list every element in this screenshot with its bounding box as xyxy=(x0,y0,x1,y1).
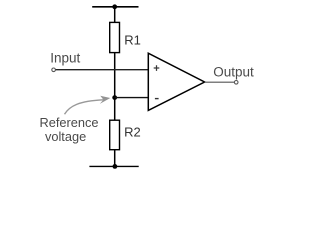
svg-text:Input: Input xyxy=(50,51,80,66)
annotation arrow to reference node xyxy=(65,100,104,114)
junction bottom node xyxy=(113,164,118,169)
output terminal xyxy=(234,81,238,85)
pin - (inverting) xyxy=(155,98,159,100)
input terminal xyxy=(52,68,56,72)
wire R2 to bottom rail xyxy=(114,150,116,167)
junction top node xyxy=(112,4,117,9)
pin + (non-inverting) xyxy=(154,65,160,71)
node reference voltage (junction dot) xyxy=(112,95,117,100)
top supply rail xyxy=(92,6,138,8)
svg-text:R1: R1 xyxy=(124,33,141,48)
svg-text:voltage: voltage xyxy=(45,129,86,144)
resistor R1 xyxy=(110,22,120,52)
op-amp U1 xyxy=(148,53,204,110)
wire op-amp output xyxy=(205,81,235,83)
bottom supply rail xyxy=(89,165,138,167)
svg-text:R2: R2 xyxy=(124,125,141,140)
wire input to op-amp + xyxy=(56,69,149,71)
wire R1 to R2 (divider chain) xyxy=(114,53,116,121)
svg-text:Output: Output xyxy=(213,64,254,79)
svg-text:Reference: Reference xyxy=(39,115,98,130)
resistor R2 xyxy=(110,120,120,150)
wire node to op-amp - xyxy=(115,97,149,99)
wire top rail to R1 xyxy=(114,7,116,23)
